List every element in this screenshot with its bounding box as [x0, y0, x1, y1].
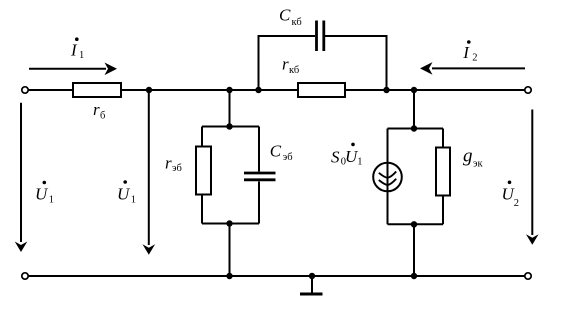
svg-text:r: r	[93, 100, 100, 119]
svg-text:1: 1	[79, 50, 84, 61]
svg-text:эк: эк	[473, 158, 484, 169]
svg-text:2: 2	[472, 53, 477, 64]
svg-text:C: C	[279, 5, 291, 24]
svg-text:б: б	[100, 110, 105, 121]
svg-text:g: g	[463, 146, 473, 167]
svg-text:r: r	[165, 153, 172, 172]
svg-text:эб: эб	[283, 152, 293, 163]
svg-text:кб: кб	[292, 17, 302, 28]
svg-text:U: U	[117, 185, 131, 204]
svg-text:r: r	[282, 54, 289, 73]
svg-text:кб: кб	[289, 65, 299, 76]
svg-text:U: U	[35, 185, 49, 204]
svg-text:S: S	[331, 147, 340, 166]
svg-text:1: 1	[49, 195, 54, 206]
svg-text:2: 2	[514, 198, 519, 209]
svg-text:C: C	[270, 141, 282, 160]
svg-text:эб: эб	[172, 163, 182, 174]
svg-text:1: 1	[131, 195, 136, 206]
svg-text:1: 1	[357, 157, 362, 168]
